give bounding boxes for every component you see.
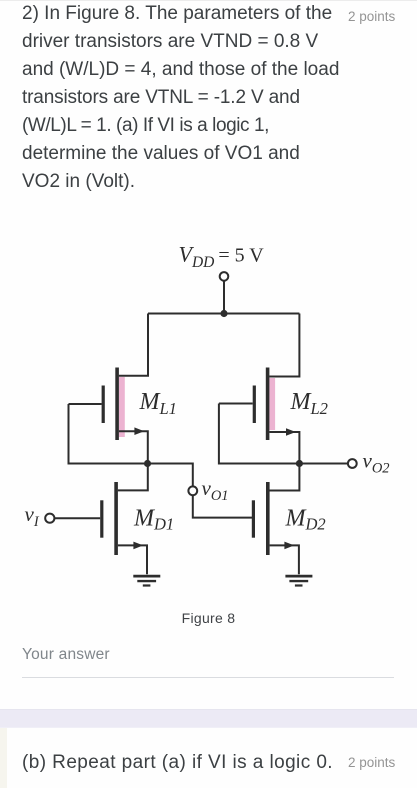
- transistor ML2: [253, 368, 300, 464]
- svg-text:VDD = 5 V: VDD = 5 V: [179, 242, 265, 271]
- terminal vO2: [348, 459, 357, 468]
- svg-text:ML2: ML2: [290, 389, 328, 418]
- wire vI lead: [55, 517, 101, 519]
- terminal VDD: [220, 272, 229, 281]
- svg-text:vO2: vO2: [363, 449, 390, 477]
- wire MD2 drain: [269, 464, 299, 491]
- transistor MD2: [252, 482, 299, 574]
- label ML2: [290, 389, 328, 418]
- svg-text:MD1: MD1: [133, 505, 174, 533]
- svg-text:vO1: vO1: [202, 476, 229, 504]
- wire node A to vO1: [148, 464, 193, 487]
- terminal vI: [45, 514, 54, 523]
- transistor ML1: [102, 368, 148, 464]
- ground GND2: [285, 576, 312, 585]
- ground GND1: [133, 576, 160, 585]
- svg-text:MD2: MD2: [285, 505, 326, 533]
- label vO1: [202, 476, 229, 504]
- wire left rail drop: [119, 314, 148, 376]
- junction top rail: [220, 310, 227, 317]
- wire right rail drop: [269, 314, 299, 377]
- transistor MD1: [100, 482, 147, 574]
- wire top rail: [148, 313, 299, 315]
- svg-text:vI: vI: [25, 502, 40, 530]
- wire node B to vO2: [299, 463, 347, 465]
- wire ML2 gate-source loop: [219, 404, 296, 464]
- node A: [144, 460, 151, 467]
- wire ML1 gate-source loop: [69, 404, 145, 464]
- label ML1: [139, 389, 177, 418]
- node B: [296, 460, 303, 467]
- terminal vO1: [188, 486, 197, 495]
- wire MD1 drain: [118, 464, 148, 491]
- wire vO1 to MD2 gate: [193, 495, 252, 517]
- label MD2: [285, 505, 326, 533]
- wire ML2 gate lead: [219, 403, 253, 405]
- svg-text:ML1: ML1: [139, 389, 177, 418]
- wire ML1 gate lead: [69, 403, 102, 405]
- net VDD label: [179, 242, 265, 271]
- wire VDD stub: [223, 281, 225, 314]
- label MD1: [133, 505, 174, 533]
- label vI: [25, 502, 40, 530]
- label vO2: [363, 449, 390, 477]
